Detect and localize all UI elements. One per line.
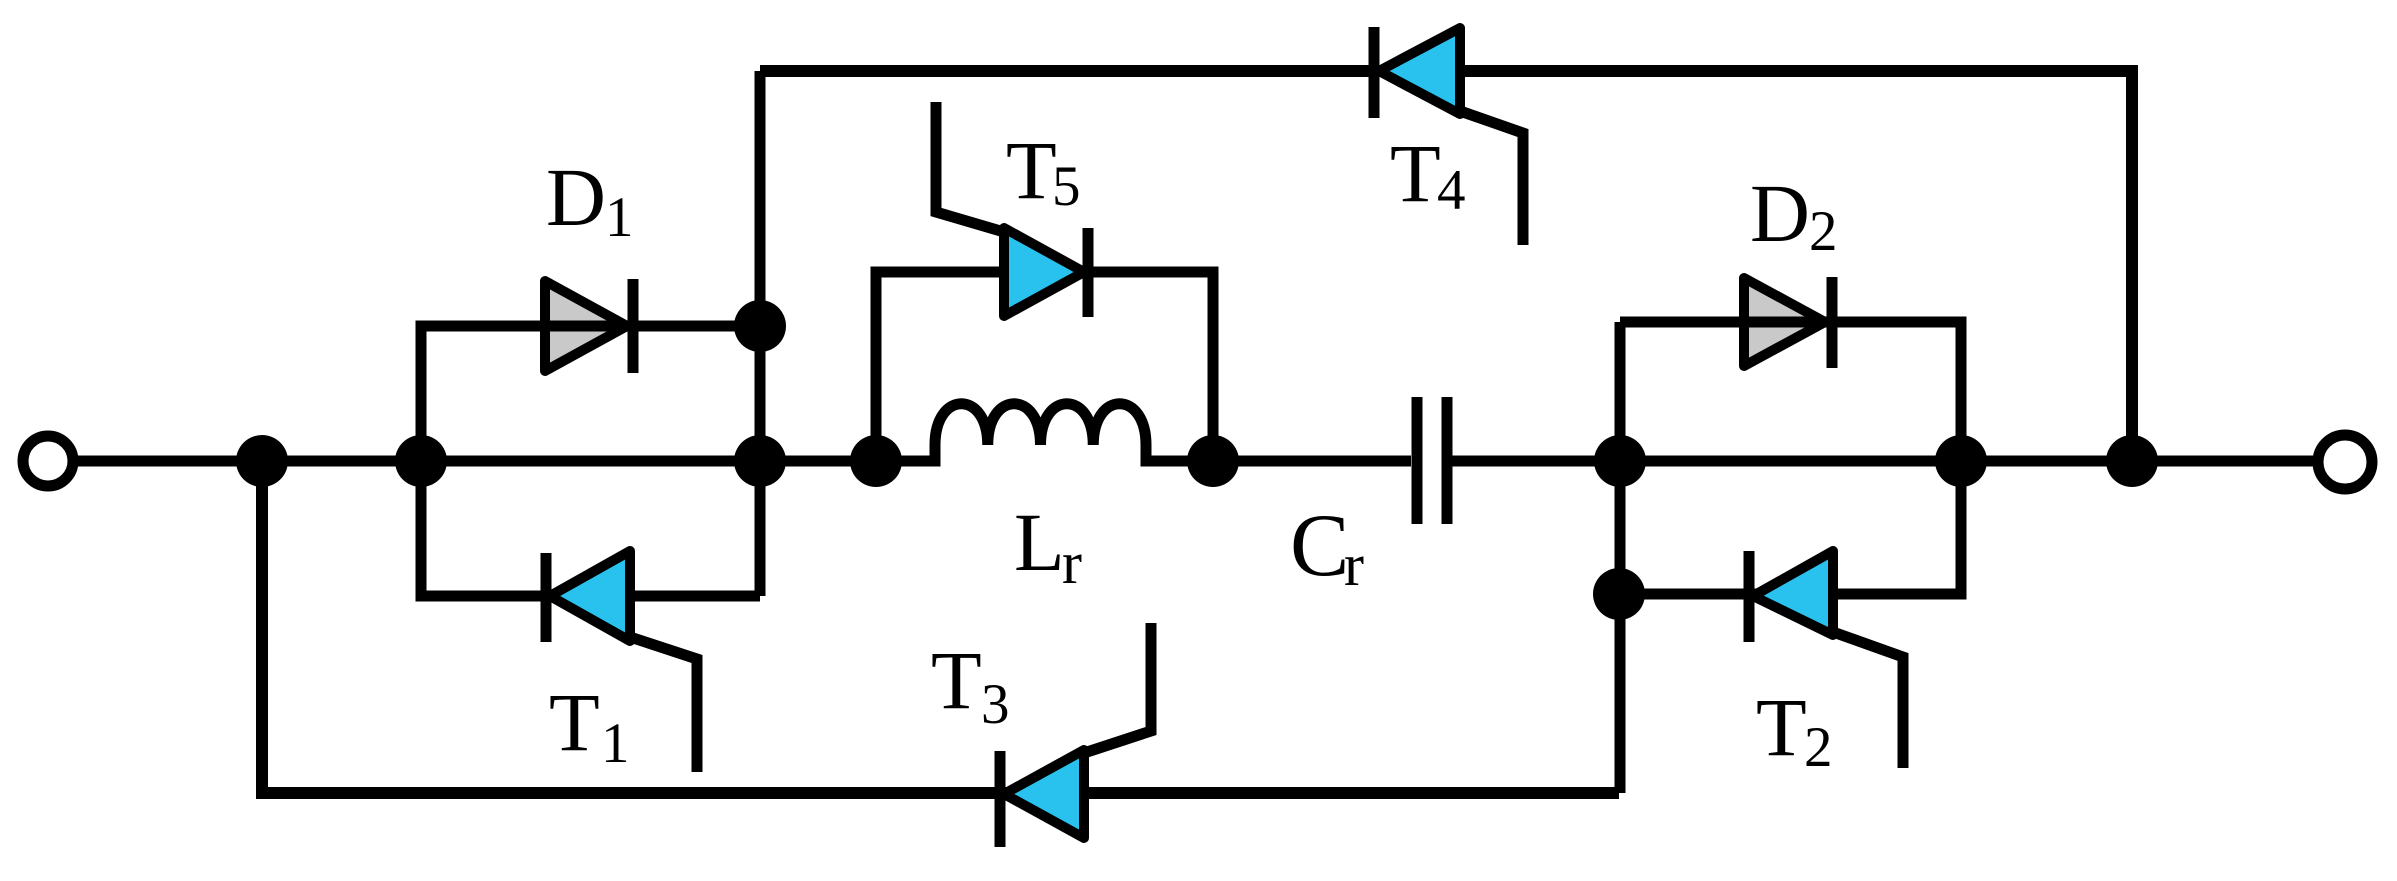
svg-text:D: D [546, 151, 606, 243]
wire T1 to vertical [630, 591, 760, 602]
thyristor T1 [546, 551, 697, 772]
thyristor T3 [1000, 623, 1151, 847]
svg-text:D: D [1750, 167, 1810, 259]
svg-text:T: T [549, 676, 600, 768]
wire D1 to node [627, 321, 760, 332]
svg-text:3: 3 [981, 673, 1010, 736]
node dot rail 6 [1594, 435, 1646, 487]
svg-text:2: 2 [1809, 200, 1838, 263]
svg-text:T: T [1756, 681, 1807, 773]
svg-text:T: T [1390, 127, 1441, 219]
wire top loop [760, 71, 2132, 461]
wire T2 branch [1619, 461, 1961, 594]
wire main rail right [1452, 456, 2319, 467]
svg-text:2: 2 [1804, 716, 1833, 779]
thyristor T4 [1374, 27, 1523, 245]
capacitor Cr plate right [1442, 397, 1453, 524]
wire T1 bracket [421, 461, 546, 596]
thyristor T5 [936, 102, 1088, 317]
capacitor Cr plate left [1412, 397, 1423, 524]
thyristor T2 [1749, 551, 1903, 768]
svg-text:C: C [1290, 497, 1349, 595]
node dot rail 8 [2106, 435, 2158, 487]
node dot rail 2 [395, 435, 447, 487]
node dot rail 5 [1187, 435, 1239, 487]
svg-text:1: 1 [601, 712, 630, 775]
svg-text:5: 5 [1052, 155, 1081, 218]
wire D1 bracket [421, 326, 545, 461]
svg-text:T: T [1006, 124, 1057, 216]
svg-text:1: 1 [605, 186, 634, 249]
svg-text:T: T [931, 634, 982, 726]
node dot rail 1 [236, 435, 288, 487]
wire main rail left [74, 456, 935, 467]
node dot T2 branch [1593, 568, 1645, 620]
inductor Lr [876, 404, 1213, 461]
wire T5 bracket left [876, 272, 1004, 461]
wire T5 bracket right [1088, 272, 1213, 461]
node dot rail 7 [1935, 435, 1987, 487]
diode D1 [541, 279, 633, 373]
diode D2 [1740, 277, 1832, 368]
terminal left [23, 436, 73, 486]
wire D2 bracket [1620, 322, 1961, 461]
svg-text:4: 4 [1437, 159, 1466, 222]
svg-text:r: r [1062, 530, 1082, 596]
wire right mid vertical x=1620 [1615, 322, 1626, 793]
wire bottom loop [262, 461, 1619, 793]
terminal right [2318, 435, 2372, 489]
wire main rail mid [1149, 456, 1411, 467]
node dot D1 branch [734, 300, 786, 352]
node dot rail 4 [850, 435, 902, 487]
wire left vertical x=760 [755, 71, 766, 596]
svg-text:r: r [1344, 532, 1364, 598]
node dot rail 3 [734, 435, 786, 487]
svg-text:L: L [1014, 496, 1065, 588]
